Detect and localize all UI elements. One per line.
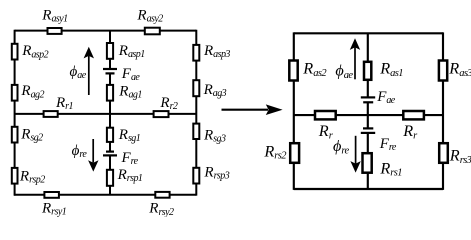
svg-text:Rsg1: Rsg1 — [118, 127, 140, 144]
resistor R_asp3 — [193, 45, 199, 61]
resistor R_r1 — [44, 111, 58, 117]
MMF source F_ae left circuit short plate — [106, 72, 115, 74]
resistor R_sg2 — [12, 127, 18, 143]
svg-text:ϕre: ϕre — [72, 143, 88, 160]
resistor R_rs1 — [363, 153, 372, 173]
svg-text:Ras1: Ras1 — [379, 59, 403, 78]
svg-text:Fre: Fre — [379, 136, 397, 153]
svg-text:Rag2: Rag2 — [20, 83, 44, 100]
resistor R_sg3 — [193, 124, 199, 139]
resistor R_rsp1 — [107, 170, 113, 186]
wire left circuit left leg — [14, 30, 16, 196]
svg-text:Fre: Fre — [121, 150, 139, 167]
svg-text:Ras3: Ras3 — [448, 59, 471, 78]
svg-text:Rrsy1: Rrsy1 — [41, 200, 66, 217]
svg-text:ϕae: ϕae — [70, 64, 87, 81]
svg-text:Rrsp1: Rrsp1 — [117, 167, 143, 184]
svg-text:Rasp2: Rasp2 — [21, 43, 48, 60]
svg-text:Rr1: Rr1 — [55, 95, 73, 112]
svg-text:Fae: Fae — [376, 89, 396, 106]
resistor R_as2 — [289, 61, 297, 81]
resistor R_r right — [403, 111, 424, 119]
wire left circuit bottom rail — [14, 194, 196, 196]
svg-text:Rrs2: Rrs2 — [263, 142, 287, 161]
MMF source F_re right circuit short plate — [363, 127, 373, 129]
MMF source F_re right circuit long plate — [361, 132, 375, 134]
resistor R_rs2 — [290, 143, 299, 163]
wire left circuit center leg upper — [109, 31, 111, 69]
flux arrow phi_ae left circuit — [84, 47, 94, 95]
resistor R_rsp2 — [12, 168, 18, 184]
resistor R_asy1 — [48, 28, 62, 34]
wire right circuit center leg upper — [367, 33, 369, 97]
wire right circuit middle rail — [294, 114, 443, 116]
resistor R_ag1 — [107, 85, 113, 101]
svg-text:Rasp1: Rasp1 — [118, 43, 145, 60]
MMF source F_re left circuit long plate — [103, 154, 117, 156]
svg-text:ϕae: ϕae — [335, 62, 353, 81]
svg-text:Rasy2: Rasy2 — [136, 8, 163, 25]
svg-text:Rsg3: Rsg3 — [203, 127, 226, 144]
resistor R_asy2 — [145, 28, 160, 35]
svg-text:Rrs3: Rrs3 — [449, 147, 471, 166]
wire right circuit center leg mid — [367, 102, 369, 128]
MMF source F_ae right circuit long plate — [361, 96, 375, 98]
wire right circuit center leg lower — [367, 133, 369, 189]
wire right circuit bottom rail — [294, 188, 443, 190]
resistor R_r2 — [154, 111, 169, 117]
svg-text:Rag1: Rag1 — [118, 84, 142, 101]
svg-text:Rr: Rr — [318, 122, 334, 141]
svg-text:Rr2: Rr2 — [159, 95, 178, 112]
MMF source F_ae left circuit long plate — [103, 68, 117, 70]
svg-text:ϕre: ϕre — [333, 137, 349, 156]
svg-text:Fae: Fae — [121, 66, 141, 83]
svg-text:Rag3: Rag3 — [203, 82, 227, 99]
svg-text:Rsg2: Rsg2 — [20, 126, 43, 143]
resistor R_rsy2 — [155, 192, 169, 198]
flux arrow phi_re right circuit — [350, 136, 360, 173]
wire left circuit center leg lower — [109, 155, 111, 194]
svg-text:Rr: Rr — [402, 122, 418, 141]
svg-text:Rrsp2: Rrsp2 — [19, 168, 45, 185]
resistor R_ag3 — [193, 80, 199, 96]
MMF source F_ae right circuit short plate — [363, 101, 373, 103]
resistor R_asp1 — [107, 43, 113, 59]
flux arrow phi_re left circuit — [88, 139, 98, 172]
svg-text:Rrsy2: Rrsy2 — [148, 201, 174, 217]
wire right circuit left leg — [293, 32, 295, 190]
arrow between circuits — [222, 104, 283, 115]
svg-text:Rrsp3: Rrsp3 — [203, 164, 229, 181]
wire right circuit right leg — [442, 32, 444, 190]
svg-text:Rasy1: Rasy1 — [41, 8, 67, 25]
resistor R_r left — [315, 111, 336, 119]
resistor R_as3 — [439, 61, 447, 81]
wire left circuit top rail — [15, 30, 197, 32]
svg-text:Rasp3: Rasp3 — [203, 43, 230, 60]
resistor R_ag2 — [12, 85, 18, 101]
resistor R_rs3 — [439, 143, 448, 163]
resistor R_as1 — [364, 62, 371, 80]
flux arrow phi_ae right circuit — [350, 38, 360, 79]
svg-text:Rrs1: Rrs1 — [379, 159, 402, 178]
MMF source F_re left circuit short plate — [106, 151, 114, 153]
wire right circuit top rail — [294, 32, 443, 34]
wire left circuit right leg — [195, 30, 197, 196]
resistor R_sg1 — [107, 128, 113, 142]
resistor R_asp2 — [12, 44, 18, 60]
svg-text:Ras2: Ras2 — [302, 59, 327, 78]
wire left circuit middle rail — [15, 113, 197, 115]
wire left circuit center leg mid — [109, 73, 111, 151]
resistor R_rsp3 — [193, 168, 199, 184]
resistor R_rsy1 — [44, 192, 59, 198]
